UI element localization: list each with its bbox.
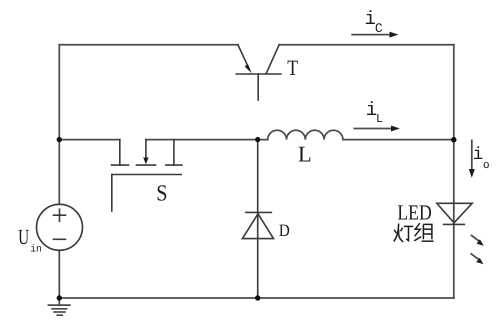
wire top bus right segment xyxy=(279,44,454,46)
node left mid junction xyxy=(57,137,62,142)
diode D xyxy=(242,140,273,298)
svg-text:o: o xyxy=(483,160,490,172)
label Uin xyxy=(18,225,42,256)
ground xyxy=(48,298,70,315)
source Uin xyxy=(37,204,83,250)
wire top bus left segment xyxy=(59,44,238,46)
current label iL xyxy=(366,99,383,126)
node diode bottom junction xyxy=(255,295,260,300)
wire mid bus right segment xyxy=(343,139,454,141)
transistor S (switch MOSFET) xyxy=(112,140,182,211)
node diode top junction xyxy=(255,137,260,142)
inductor L coil xyxy=(268,130,343,139)
svg-text:L: L xyxy=(298,142,312,167)
LED light arrow 1 xyxy=(472,236,484,246)
wire left vertical (source bottom to ground node) xyxy=(58,250,60,298)
LED lamp group diode xyxy=(437,203,472,224)
node right mid junction xyxy=(451,137,456,142)
LED light arrow 2 xyxy=(471,254,483,264)
svg-text:D: D xyxy=(279,220,290,240)
wire right vertical xyxy=(453,45,455,298)
current arrow iL xyxy=(354,126,400,132)
wire left vertical (top bus corner down to source top) xyxy=(58,45,60,205)
svg-text:in: in xyxy=(30,243,42,255)
wire bottom bus xyxy=(59,297,454,299)
current arrow iC xyxy=(352,32,398,38)
current label io xyxy=(473,145,490,172)
svg-text:LED: LED xyxy=(397,200,431,224)
svg-text:i: i xyxy=(473,145,484,165)
current arrow io xyxy=(469,140,475,177)
svg-text:S: S xyxy=(156,180,167,205)
transistor T xyxy=(236,45,281,100)
svg-text:T: T xyxy=(287,55,298,80)
wire mid bus left segment xyxy=(59,139,120,141)
wire mid bus middle segment xyxy=(146,139,268,141)
current label iC xyxy=(365,8,383,36)
label dengzu (Chinese: lamp group) xyxy=(394,223,434,242)
svg-text:L: L xyxy=(376,112,383,126)
svg-text:U: U xyxy=(18,225,29,249)
node ground junction xyxy=(57,295,62,300)
